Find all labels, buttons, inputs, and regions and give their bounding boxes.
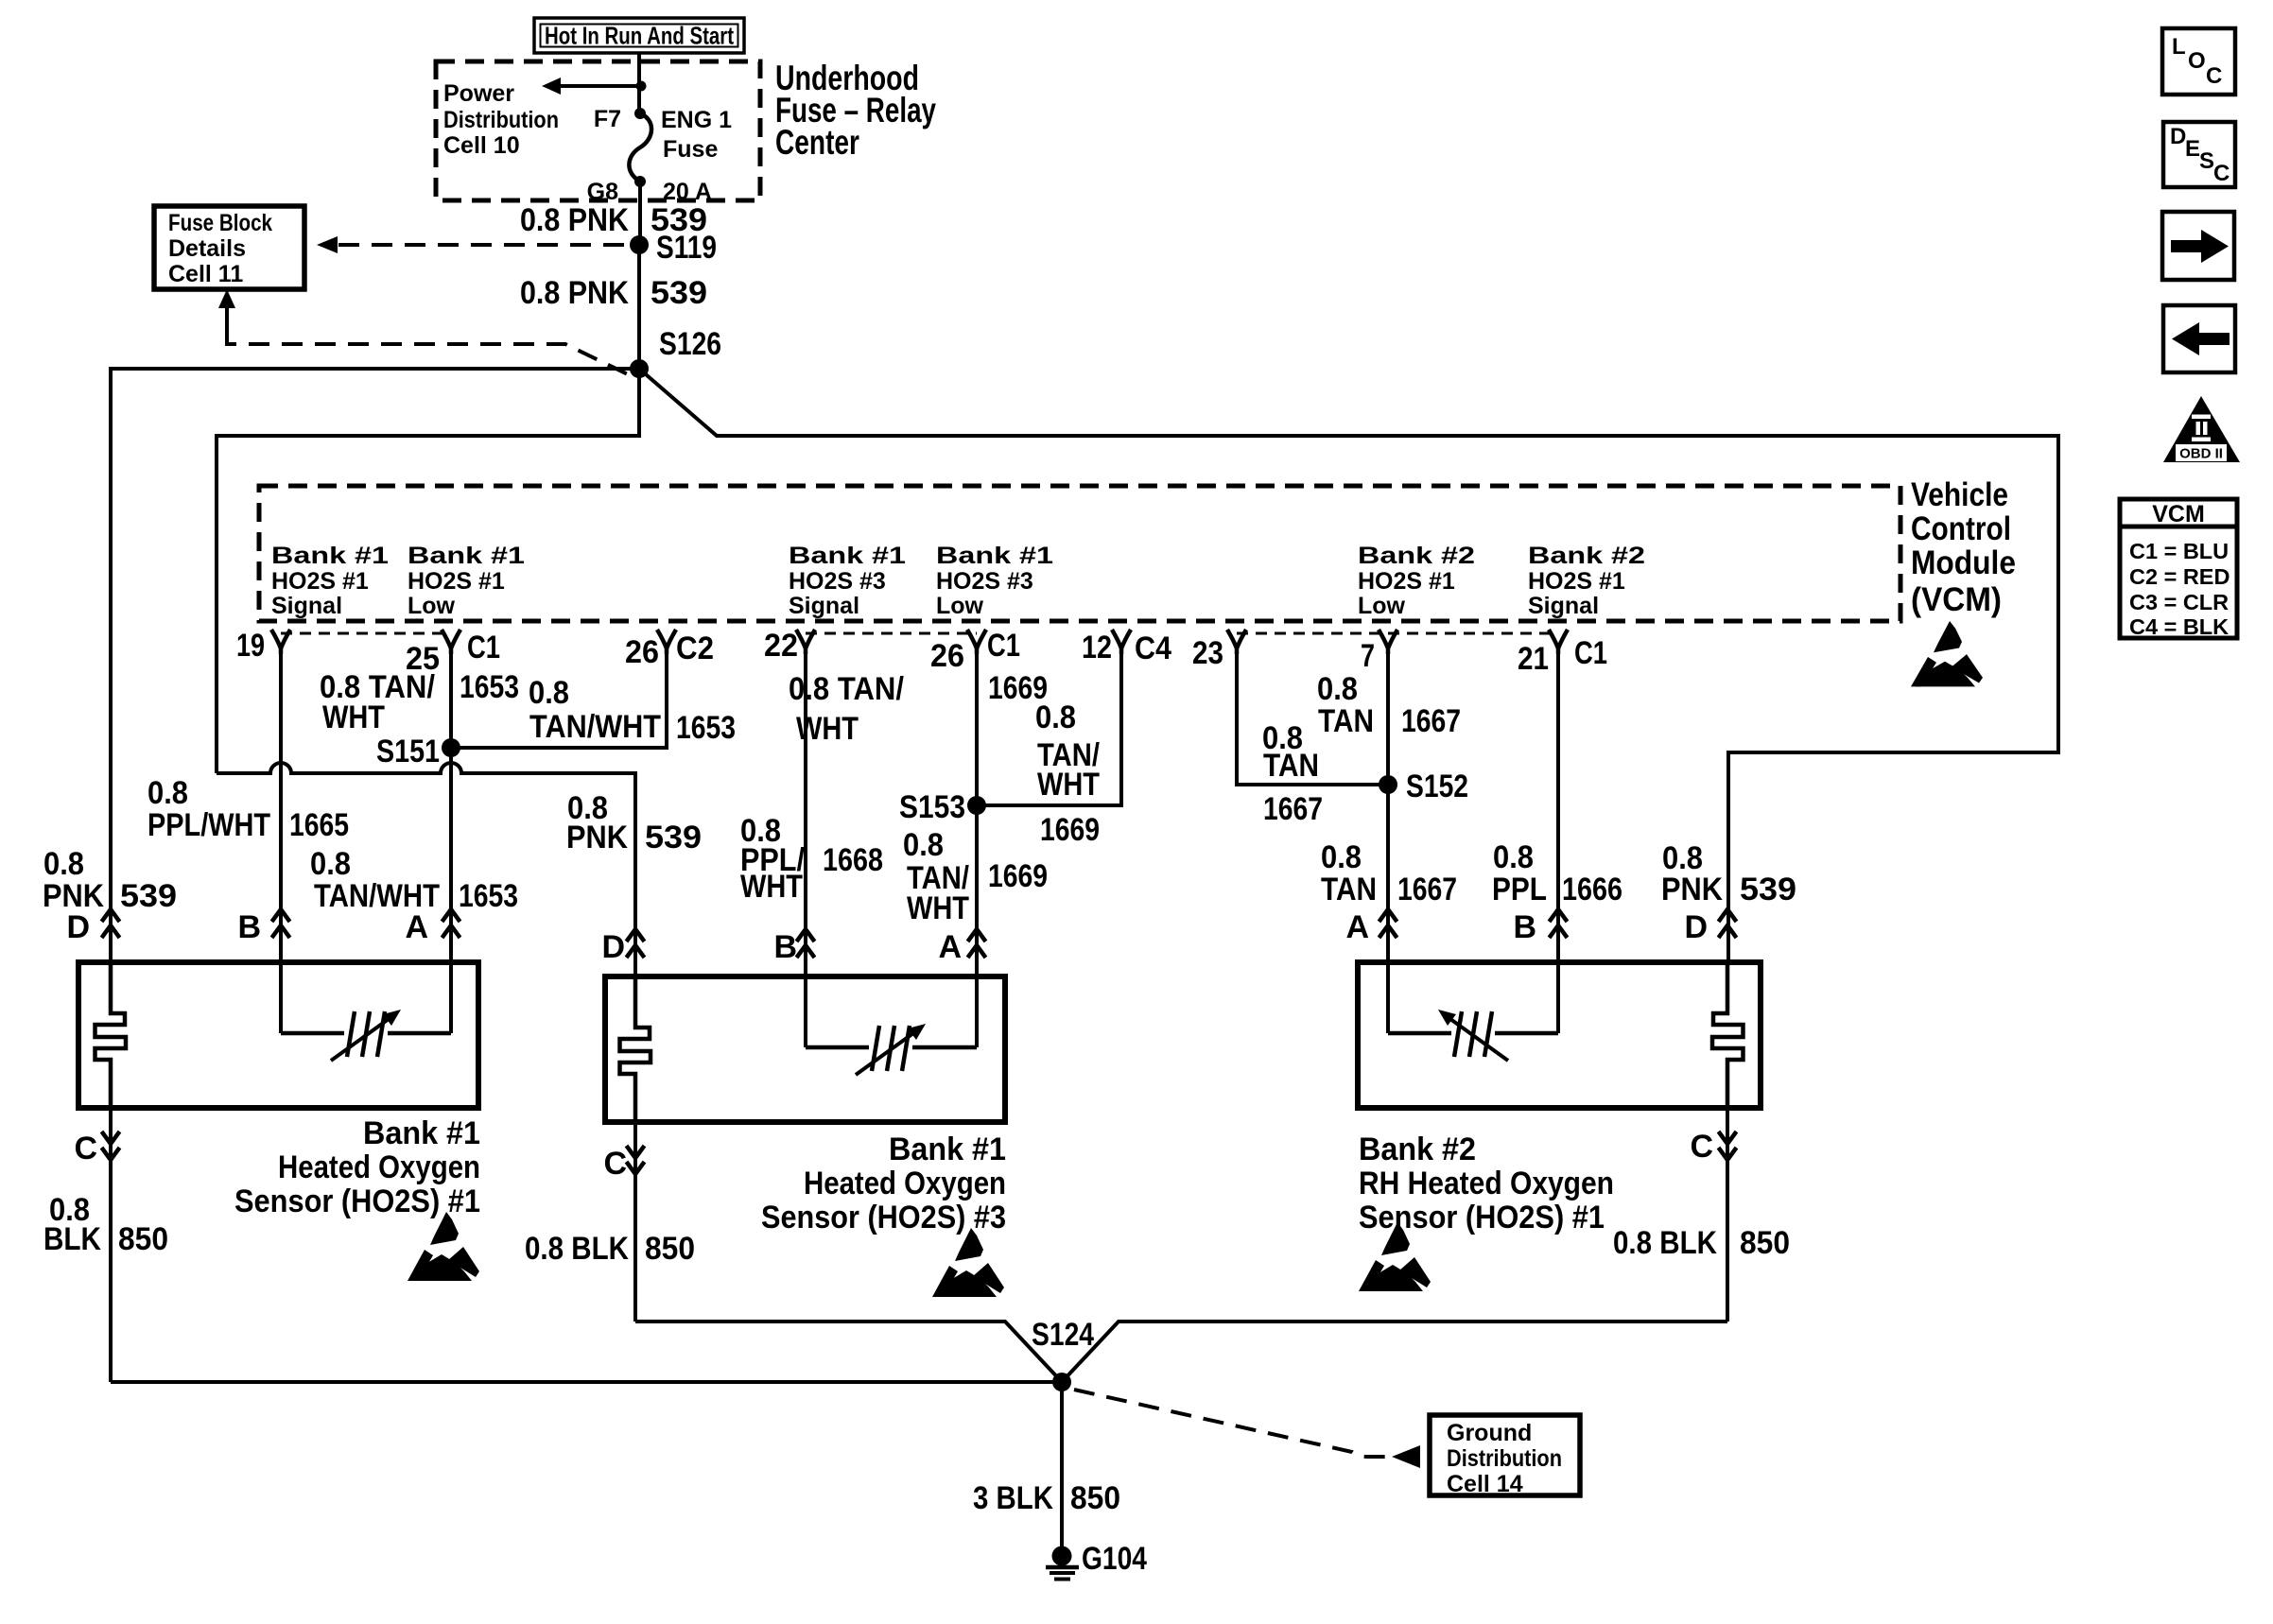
wire: pin 26 C2 to S151 (0.8 TAN/WHT 1653) bbox=[451, 653, 667, 748]
node S152 bbox=[1379, 775, 1397, 794]
svg-text:B: B bbox=[773, 929, 797, 965]
svg-text:C1 = BLU: C1 = BLU bbox=[2129, 539, 2229, 563]
svg-text:Bank #1: Bank #1 bbox=[408, 543, 525, 569]
OBD II triangle icon bbox=[2163, 396, 2240, 462]
ESD symbol at HO2S#3 bbox=[932, 1228, 1004, 1297]
VCM pin 26 connector C2 bbox=[657, 630, 676, 654]
left arrow icon box bbox=[2163, 305, 2235, 372]
VCM connector dashed pin line C1 pins 19-25 bbox=[281, 632, 451, 635]
VCM pin 12 connector C4 bbox=[1112, 630, 1131, 654]
svg-text:S: S bbox=[2199, 148, 2214, 174]
svg-text:Cell 11: Cell 11 bbox=[168, 261, 243, 287]
svg-text:Bank #2: Bank #2 bbox=[1359, 1132, 1476, 1167]
svg-text:539: 539 bbox=[651, 275, 707, 311]
svg-text:Bank #1: Bank #1 bbox=[889, 1132, 1006, 1167]
svg-text:Sensor (HO2S) #1: Sensor (HO2S) #1 bbox=[234, 1183, 480, 1219]
svg-text:TAN: TAN bbox=[1263, 748, 1319, 784]
svg-text:Bank #1: Bank #1 bbox=[363, 1115, 480, 1151]
svg-text:HO2S #1: HO2S #1 bbox=[271, 568, 369, 595]
svg-text:TAN/WHT: TAN/WHT bbox=[529, 709, 661, 745]
svg-text:850: 850 bbox=[1740, 1225, 1790, 1261]
svg-text:0.8: 0.8 bbox=[1321, 839, 1362, 875]
VCM pin 7 bbox=[1379, 630, 1397, 654]
svg-text:Cell 10: Cell 10 bbox=[443, 132, 520, 159]
wire: pin 26 C1 through S153 to HO2S#3 pin A (0.8 TAN/WHT 1669) bbox=[975, 653, 979, 976]
sensor element (variable resistor) of HO2S#1 bbox=[281, 962, 451, 1033]
svg-text:D: D bbox=[601, 929, 625, 965]
svg-text:TAN: TAN bbox=[1318, 703, 1374, 739]
svg-text:PNK: PNK bbox=[1661, 872, 1723, 907]
svg-text:D: D bbox=[1684, 909, 1708, 945]
svg-text:C1: C1 bbox=[467, 630, 500, 665]
svg-text:OBD II: OBD II bbox=[2179, 446, 2223, 462]
svg-text:HO2S #1: HO2S #1 bbox=[1528, 568, 1625, 595]
svg-text:Distribution: Distribution bbox=[1447, 1445, 1562, 1472]
dashed reference: S124 to Ground Distribution Cell 14 bbox=[1074, 1390, 1386, 1457]
sensor element (variable resistor) of HO2S#3 bbox=[806, 976, 977, 1047]
svg-text:Distribution: Distribution bbox=[443, 107, 559, 133]
svg-text:RH Heated Oxygen: RH Heated Oxygen bbox=[1359, 1166, 1614, 1201]
wire: 3 BLK 850 to G104 bbox=[1060, 1382, 1064, 1546]
svg-text:21: 21 bbox=[1518, 641, 1549, 677]
svg-text:C: C bbox=[1690, 1129, 1713, 1165]
svg-text:S124: S124 bbox=[1032, 1317, 1094, 1353]
svg-text:C1: C1 bbox=[987, 628, 1020, 664]
wire: battery feed from Hot In Run And Start bbox=[637, 53, 641, 113]
svg-text:C3 = CLR: C3 = CLR bbox=[2129, 590, 2229, 614]
wire: pin 7 through S152 to Bank2 sensor pin A (0.8 TAN 1667) bbox=[1386, 653, 1390, 962]
svg-text:S119: S119 bbox=[656, 230, 717, 266]
svg-text:0.8 PNK: 0.8 PNK bbox=[520, 275, 629, 311]
svg-text:HO2S #1: HO2S #1 bbox=[1358, 568, 1455, 595]
svg-text:HO2S #1: HO2S #1 bbox=[408, 568, 505, 595]
svg-text:26: 26 bbox=[930, 638, 964, 674]
svg-text:Cell 14: Cell 14 bbox=[1447, 1471, 1523, 1497]
ground distribution cell 14 box bbox=[1430, 1415, 1580, 1495]
svg-text:C4: C4 bbox=[1135, 631, 1171, 666]
svg-text:1665: 1665 bbox=[289, 807, 349, 843]
svg-text:WHT: WHT bbox=[1037, 767, 1100, 803]
underhood fuse-relay center dashed box bbox=[436, 61, 760, 200]
VCM connector dashed pin line C1 pins 22-26 bbox=[806, 632, 977, 635]
svg-text:23: 23 bbox=[1192, 635, 1223, 671]
svg-text:PPL/WHT: PPL/WHT bbox=[147, 807, 270, 843]
svg-text:A: A bbox=[938, 929, 962, 965]
svg-text:Heated Oxygen: Heated Oxygen bbox=[804, 1166, 1006, 1201]
svg-text:0.8: 0.8 bbox=[43, 846, 84, 882]
Vehicle Control Module (VCM) dashed box bbox=[259, 486, 1900, 621]
svg-text:B: B bbox=[237, 909, 261, 945]
svg-text:C: C bbox=[2206, 63, 2222, 89]
svg-text:1666: 1666 bbox=[1562, 872, 1622, 907]
svg-text:C: C bbox=[74, 1131, 97, 1166]
svg-text:A: A bbox=[1345, 909, 1369, 945]
LOC icon box bbox=[2162, 28, 2235, 95]
VCM pin 21 connector C1 bbox=[1549, 630, 1568, 654]
svg-text:D: D bbox=[66, 909, 90, 945]
wire: pin 12 C4 to S153 (0.8 TAN/WHT 1669) bbox=[977, 653, 1121, 805]
svg-text:1667: 1667 bbox=[1397, 872, 1457, 907]
svg-text:0.8: 0.8 bbox=[903, 827, 944, 863]
svg-text:Bank #1: Bank #1 bbox=[936, 543, 1053, 569]
svg-text:C2: C2 bbox=[676, 631, 714, 666]
svg-text:539: 539 bbox=[120, 878, 177, 914]
VCM pin 26 connector C1 bbox=[967, 630, 986, 654]
heater element of HO2S#1 bbox=[95, 962, 127, 1108]
svg-text:22: 22 bbox=[764, 628, 798, 664]
svg-text:850: 850 bbox=[645, 1231, 695, 1267]
svg-text:Details: Details bbox=[168, 235, 246, 262]
svg-text:0.8 PNK: 0.8 PNK bbox=[520, 202, 629, 238]
node S124 bbox=[1052, 1373, 1071, 1391]
svg-text:G8: G8 bbox=[587, 179, 618, 205]
svg-text:ENG 1: ENG 1 bbox=[661, 107, 732, 133]
svg-text:O: O bbox=[2188, 48, 2206, 74]
svg-text:0.8 BLK: 0.8 BLK bbox=[1613, 1225, 1717, 1261]
DESC icon box bbox=[2163, 122, 2235, 187]
svg-text:0.8: 0.8 bbox=[1317, 671, 1358, 707]
ESD symbol at HO2S#1 bbox=[408, 1212, 479, 1281]
svg-text:PPL: PPL bbox=[1492, 872, 1547, 907]
svg-text:WHT: WHT bbox=[907, 890, 969, 926]
svg-text:C2 = RED: C2 = RED bbox=[2129, 564, 2230, 589]
svg-text:L: L bbox=[2172, 34, 2186, 60]
svg-text:Heated Oxygen: Heated Oxygen bbox=[278, 1149, 480, 1185]
svg-text:Bank #1: Bank #1 bbox=[271, 543, 389, 569]
svg-text:Low: Low bbox=[408, 593, 456, 619]
node: junction to power distribution arrow bbox=[636, 81, 647, 92]
svg-text:F7: F7 bbox=[594, 106, 621, 132]
svg-text:0.8: 0.8 bbox=[147, 775, 188, 811]
svg-text:1669: 1669 bbox=[1040, 812, 1100, 848]
svg-text:G104: G104 bbox=[1082, 1541, 1147, 1577]
node S126 bbox=[630, 359, 649, 378]
svg-text:1667: 1667 bbox=[1263, 791, 1323, 827]
right arrow icon box bbox=[2162, 212, 2234, 280]
svg-text:0.8: 0.8 bbox=[1035, 700, 1076, 735]
wire: pin 22 to HO2S#3 pin B (0.8 PPL/WHT 1668) bbox=[804, 653, 807, 976]
wire: HO2S#3 and Bank2 grounds to S124 bbox=[635, 1322, 1727, 1382]
wire: S126 middle branch to HO2S#3 pin D (with hops) bbox=[217, 369, 639, 773]
svg-text:0.8: 0.8 bbox=[310, 846, 351, 882]
svg-text:(VCM): (VCM) bbox=[1911, 581, 2002, 618]
svg-text:1653: 1653 bbox=[459, 878, 518, 914]
wire: 0.8 PNK 539 to S126 bbox=[637, 245, 641, 369]
svg-text:WHT: WHT bbox=[322, 700, 385, 735]
Bank #1 Heated Oxygen Sensor HO2S #3 box bbox=[605, 976, 1005, 1122]
svg-text:PNK: PNK bbox=[566, 820, 628, 855]
sensor element (variable resistor) of Bank2 sensor bbox=[1388, 962, 1558, 1033]
svg-text:B: B bbox=[1513, 909, 1536, 945]
svg-text:1653: 1653 bbox=[676, 710, 736, 746]
svg-text:C: C bbox=[2213, 161, 2230, 186]
svg-text:Vehicle: Vehicle bbox=[1911, 476, 2008, 513]
svg-text:HO2S #3: HO2S #3 bbox=[936, 568, 1033, 595]
VCM connector dashed pin line C1 pins 23-7-21 bbox=[1237, 632, 1558, 635]
svg-text:19: 19 bbox=[236, 628, 265, 664]
svg-text:S153: S153 bbox=[899, 789, 965, 825]
VCM pin 23 bbox=[1227, 630, 1246, 654]
VCM pin 25 connector C1 bbox=[442, 630, 460, 654]
svg-text:7: 7 bbox=[1361, 638, 1375, 674]
svg-text:Bank #2: Bank #2 bbox=[1358, 543, 1475, 569]
svg-text:Hot In Run And Start: Hot In Run And Start bbox=[545, 22, 734, 50]
svg-text:Center: Center bbox=[775, 123, 859, 162]
svg-text:Ground: Ground bbox=[1447, 1420, 1532, 1446]
svg-text:S126: S126 bbox=[659, 326, 721, 362]
wire: pin 21 C1 to Bank2 sensor pin B (0.8 PPL 1666) bbox=[1556, 653, 1560, 962]
svg-text:C: C bbox=[603, 1146, 627, 1182]
svg-text:Fuse: Fuse bbox=[663, 136, 718, 163]
svg-text:A: A bbox=[405, 909, 428, 945]
svg-text:1669: 1669 bbox=[988, 858, 1048, 894]
svg-text:Bank #1: Bank #1 bbox=[789, 543, 906, 569]
svg-text:D: D bbox=[2170, 124, 2186, 149]
svg-text:Fuse Block: Fuse Block bbox=[168, 210, 272, 236]
svg-text:Sensor (HO2S) #3: Sensor (HO2S) #3 bbox=[761, 1200, 1006, 1235]
wire: pin 23 to S152 (0.8 TAN 1667) bbox=[1237, 653, 1388, 785]
wire: pin 19 to HO2S#1 pin B (0.8 PPL/WHT 1665) bbox=[279, 653, 283, 962]
svg-text:0.8 TAN/: 0.8 TAN/ bbox=[789, 671, 905, 707]
svg-text:1668: 1668 bbox=[823, 842, 883, 878]
wire: pin 25 through S151 to HO2S#1 pin A (0.8 TAN/WHT 1653) bbox=[449, 653, 453, 962]
Bank #1 Heated Oxygen Sensor HO2S #1 box bbox=[78, 962, 478, 1108]
svg-text:539: 539 bbox=[1740, 872, 1796, 907]
ESD symbol at VCM bbox=[1911, 621, 1983, 686]
svg-text:1667: 1667 bbox=[1401, 703, 1461, 739]
svg-text:S152: S152 bbox=[1406, 769, 1468, 804]
arrow to Power Distribution Cell 10 bbox=[560, 84, 641, 88]
heater element of HO2S#3 bbox=[620, 976, 651, 1122]
svg-text:WHT: WHT bbox=[740, 869, 803, 905]
ground G104 bbox=[1052, 1546, 1072, 1566]
svg-text:539: 539 bbox=[645, 820, 702, 855]
svg-text:20 A: 20 A bbox=[663, 179, 712, 205]
node S151 bbox=[442, 738, 460, 757]
VCM pin 22 bbox=[796, 630, 815, 654]
svg-text:3 BLK: 3 BLK bbox=[973, 1480, 1053, 1516]
heater element of Bank2 sensor bbox=[1712, 962, 1744, 1108]
fuse F7/G8 ENG 1 20A bbox=[634, 108, 646, 119]
wire: S126 right branch to Bank2 sensor pin D bbox=[639, 369, 2058, 962]
node S153 bbox=[967, 796, 986, 815]
svg-text:Signal: Signal bbox=[271, 593, 342, 619]
svg-text:Low: Low bbox=[936, 593, 984, 619]
svg-text:S151: S151 bbox=[376, 734, 440, 769]
svg-text:Control: Control bbox=[1911, 510, 2011, 547]
dashed reference: S119 to Fuse Block Details bbox=[338, 243, 632, 247]
svg-text:E: E bbox=[2185, 136, 2200, 162]
svg-text:VCM: VCM bbox=[2152, 501, 2205, 527]
svg-text:Signal: Signal bbox=[1528, 593, 1599, 619]
svg-text:850: 850 bbox=[1070, 1480, 1120, 1516]
svg-text:HO2S #3: HO2S #3 bbox=[789, 568, 886, 595]
wire: 0.8 PNK 539 fuse output bbox=[638, 181, 642, 245]
svg-text:26: 26 bbox=[625, 634, 659, 670]
ESD symbol at Bank2 sensor bbox=[1359, 1222, 1431, 1291]
svg-text:Signal: Signal bbox=[789, 593, 859, 619]
svg-text:850: 850 bbox=[118, 1221, 168, 1257]
svg-text:0.8: 0.8 bbox=[1493, 839, 1534, 875]
node S119 bbox=[630, 235, 649, 254]
svg-text:Module: Module bbox=[1911, 544, 2016, 581]
svg-text:C1: C1 bbox=[1574, 635, 1607, 671]
wire: HO2S#1 ground to S124 bbox=[111, 1380, 1062, 1384]
VCM pin 19 bbox=[271, 630, 290, 654]
dashed reference: S126 to Fuse Block Details bbox=[218, 289, 235, 308]
fuse block details box bbox=[154, 206, 304, 289]
svg-text:C4 = BLK: C4 = BLK bbox=[2129, 614, 2229, 639]
svg-text:Low: Low bbox=[1358, 593, 1406, 619]
svg-text:0.8: 0.8 bbox=[529, 675, 569, 711]
svg-text:WHT: WHT bbox=[796, 711, 859, 747]
wire: S126 left branch to HO2S#1 pin D bbox=[111, 369, 639, 962]
svg-text:12: 12 bbox=[1082, 630, 1112, 665]
svg-text:1653: 1653 bbox=[460, 669, 519, 705]
svg-text:0.8 BLK: 0.8 BLK bbox=[525, 1231, 629, 1267]
svg-text:Power: Power bbox=[443, 80, 514, 107]
Bank #2 RH Heated Oxygen Sensor HO2S #1 box bbox=[1358, 962, 1761, 1108]
svg-text:BLK: BLK bbox=[43, 1221, 101, 1257]
power feed label box: Hot In Run And Start bbox=[534, 18, 744, 53]
VCM connector color legend box bbox=[2120, 499, 2237, 638]
svg-text:TAN: TAN bbox=[1321, 872, 1377, 907]
svg-text:Bank #2: Bank #2 bbox=[1528, 543, 1645, 569]
